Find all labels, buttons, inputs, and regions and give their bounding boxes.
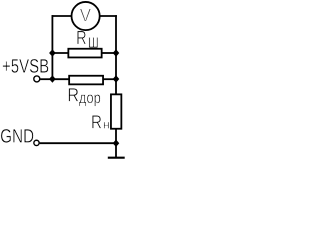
wire R_dop left lead: [52, 78, 69, 80]
node junction right rail to R_dop: [113, 75, 120, 82]
wire R_sh right lead: [102, 52, 116, 54]
node junction ground: [113, 140, 120, 147]
resistor R_sh box: [68, 49, 101, 58]
wire ground stub: [115, 143, 117, 157]
terminal +5VSB open circle: [34, 76, 40, 82]
label R of R_sh: [77, 31, 86, 44]
ground bar: [108, 157, 125, 159]
wire top-right segment: [100, 15, 117, 17]
voltmeter label V: [80, 9, 91, 22]
wire GND terminal to ground node: [40, 142, 116, 144]
label subscript n of R_n: [104, 122, 109, 129]
label GND: [1, 129, 34, 143]
wire R_sh left lead: [52, 52, 68, 54]
wire top-left segment: [52, 15, 71, 17]
wire right rail lower: [115, 129, 117, 143]
label R of R_dop: [69, 88, 79, 101]
label R of R_n: [92, 115, 101, 128]
resistor R_dop box: [69, 76, 103, 85]
resistor R_n box vertical: [111, 94, 121, 128]
label subscript dop of R_dop: [79, 95, 100, 107]
label subscript sh of R_sh: [89, 37, 98, 47]
wire right rail upper: [115, 15, 117, 94]
node junction left rail to R_sh: [49, 49, 56, 56]
label +5VSB: [3, 59, 49, 73]
node junction left rail to R_dop: [49, 75, 56, 82]
voltmeter PV1 circle: [72, 2, 100, 30]
wire +5VSB terminal to left rail: [40, 78, 52, 80]
wire left rail: [51, 15, 53, 79]
wire R_dop right lead: [103, 78, 116, 80]
terminal GND open circle: [34, 140, 39, 145]
node junction right rail to R_sh: [113, 49, 120, 56]
